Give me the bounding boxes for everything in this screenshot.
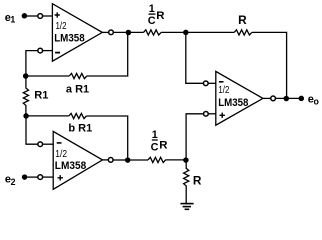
resistor R1 — [23, 76, 28, 116]
label e1 — [5, 12, 16, 25]
wire node E to b R1 — [26, 115, 69, 117]
node C (bottom RC net) — [183, 157, 189, 163]
U2 output circle — [108, 158, 113, 163]
wire U2 - input — [43, 143, 54, 145]
wire circle to bottom node — [186, 114, 204, 160]
wire node A to a R1 — [26, 75, 69, 77]
wire U3 + input — [208, 113, 216, 115]
svg-text:1: 1 — [149, 3, 155, 15]
U1 - input terminal circle — [38, 48, 43, 53]
node A (R1 top junction) — [23, 73, 29, 79]
svg-text:o: o — [314, 97, 320, 107]
wire U3 output — [263, 97, 271, 99]
svg-text:R: R — [193, 173, 202, 187]
U1 + input pin mark — [55, 12, 60, 17]
wire U2 output to bottom 1/C R — [128, 159, 148, 161]
label 1/C R (bottom) — [151, 129, 168, 153]
svg-text:C: C — [151, 141, 159, 153]
op-amp U2 (1/2 LM358) — [53, 131, 102, 189]
wire — [113, 159, 128, 161]
svg-text:LM358: LM358 — [54, 32, 84, 44]
wire to output terminal — [275, 97, 301, 99]
wire bottom 1/C R right to node C — [165, 159, 186, 161]
node E (R1 bottom junction) — [23, 113, 29, 119]
wire node B to R — [186, 31, 234, 33]
label 1/C R (top) — [148, 3, 165, 27]
wire circle to U2 — [43, 176, 54, 178]
wire — [113, 31, 143, 33]
svg-text:LM358: LM358 — [218, 97, 248, 109]
node U2 output junction — [125, 157, 131, 163]
wire 1/C R to node B — [161, 31, 186, 33]
U3 output circle — [271, 96, 276, 101]
fraction bar (top 1/C) — [149, 13, 156, 15]
U2 + input terminal circle — [38, 175, 43, 180]
svg-text:1/2: 1/2 — [218, 85, 229, 96]
svg-text:R: R — [156, 10, 164, 22]
U1 + input terminal circle — [38, 14, 43, 19]
U3 - input pin mark — [219, 81, 224, 83]
node feedback junction — [284, 96, 290, 102]
wire e1 to U1 + input — [27, 15, 38, 17]
fraction bar (bottom 1/C) — [152, 139, 158, 141]
terminal e1 — [22, 13, 28, 18]
wire a R1 to U1 output node — [87, 33, 128, 77]
svg-text:1/2: 1/2 — [56, 21, 67, 32]
svg-text:R1: R1 — [34, 90, 48, 102]
U2 - input terminal circle — [38, 142, 43, 147]
node B (U3 inverting net) — [183, 30, 189, 36]
resistor b R1 — [69, 113, 87, 118]
resistor a R1 — [69, 73, 87, 78]
svg-text:R: R — [159, 139, 167, 151]
svg-text:R: R — [238, 13, 247, 27]
U3 - input terminal circle — [203, 81, 208, 86]
svg-text:LM358: LM358 — [55, 160, 86, 172]
resistor 1/C R (bottom) — [148, 157, 166, 162]
wire circle to U1 — [43, 15, 53, 17]
label e_o — [308, 94, 320, 107]
wire U1 - input to node A — [43, 50, 53, 52]
wire — [26, 51, 38, 76]
resistor 1/C R (top) — [144, 30, 162, 35]
ground — [180, 204, 193, 210]
U1 - input pin mark — [55, 52, 60, 54]
U2 - input pin mark — [57, 142, 62, 144]
wire U1 output — [102, 31, 108, 33]
U3 + input pin mark — [220, 113, 225, 118]
label e2 — [5, 174, 16, 188]
wire e2 to U2 + input — [27, 176, 38, 178]
svg-text:C: C — [148, 15, 156, 27]
svg-text:2: 2 — [11, 177, 16, 187]
wire circle to U3 — [208, 82, 216, 84]
op-amp U1 (1/2 LM358) — [52, 4, 102, 62]
svg-text:a R1: a R1 — [66, 83, 89, 95]
wire node B down to U3 - input — [186, 32, 204, 83]
U2 + input pin mark — [58, 175, 63, 180]
node U1 output junction — [126, 30, 132, 36]
terminal e2 — [22, 174, 28, 180]
op-amp U3 (1/2 LM358) — [216, 71, 263, 125]
wire U2 output — [103, 159, 109, 161]
svg-text:1: 1 — [10, 14, 15, 24]
U3 + input terminal circle — [204, 111, 209, 116]
wire R to U3 output node — [252, 32, 287, 98]
resistor R (to ground) — [184, 160, 189, 203]
wire circle to node E — [26, 116, 38, 144]
svg-text:b R1: b R1 — [68, 122, 92, 134]
wire b R1 to U2 output node — [86, 116, 127, 160]
svg-text:1/2: 1/2 — [55, 149, 67, 160]
U1 output circle — [109, 30, 114, 35]
resistor R (feedback) — [234, 30, 252, 35]
terminal e_o — [299, 96, 305, 102]
